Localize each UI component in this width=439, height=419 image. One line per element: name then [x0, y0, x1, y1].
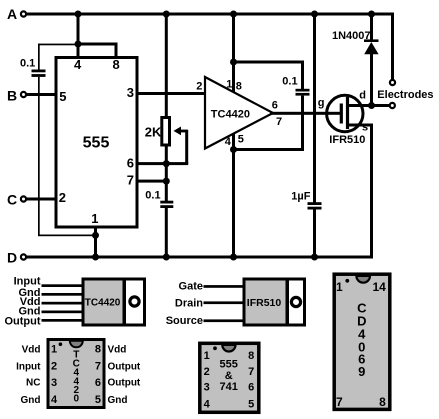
wire pin7 [137, 180, 168, 183]
svg-text:2: 2 [196, 81, 202, 93]
svg-text:1µF: 1µF [291, 191, 310, 203]
wire D rail [27, 256, 374, 259]
svg-text:4: 4 [204, 399, 211, 411]
svg-text:5: 5 [238, 134, 244, 146]
svg-text:IFR510: IFR510 [329, 134, 365, 146]
svg-text:5: 5 [95, 394, 101, 406]
junction dot C2-D [163, 254, 170, 261]
DIP14 CD4069 notch [356, 276, 370, 283]
junction dot pin1-D [92, 254, 99, 261]
wire supply link to C3 [232, 61, 304, 64]
DIP8 TC4420 body [48, 340, 104, 408]
svg-text:8: 8 [248, 350, 254, 362]
wire thin to cap C1 [38, 44, 78, 46]
svg-text:3: 3 [127, 85, 134, 100]
svg-text:NC: NC [26, 378, 40, 389]
junction dot drain [368, 102, 375, 109]
svg-text:4: 4 [225, 136, 232, 148]
svg-text:B: B [7, 88, 17, 104]
svg-text:7: 7 [276, 116, 282, 128]
wire A to U2 pins 1 8 [232, 14, 235, 93]
svg-text:555: 555 [220, 359, 238, 371]
wire drain to electrode [346, 104, 390, 107]
svg-text:s: s [362, 121, 368, 133]
svg-text:0.1: 0.1 [282, 76, 297, 88]
svg-text:741: 741 [220, 381, 238, 393]
svg-text:D: D [7, 250, 17, 266]
svg-text:4: 4 [51, 394, 58, 406]
junction dot A-371 [368, 11, 375, 18]
DIP8 TC4420 pin1 dot [59, 342, 63, 346]
svg-text:Input: Input [14, 276, 41, 288]
junction dot pin6 [163, 160, 170, 167]
svg-text:Input: Input [16, 362, 41, 373]
svg-text:2K: 2K [145, 125, 162, 140]
junction dot C4-D [311, 254, 318, 261]
junction dot A-233 [230, 11, 237, 18]
svg-text:Gnd: Gnd [108, 395, 128, 406]
diode D1 1N4007 [364, 39, 379, 54]
DIP8 555-741 body [200, 343, 259, 412]
junction dot pin1-thin [92, 232, 99, 239]
wire A to 555 pin4 [77, 14, 80, 57]
wire source lead [346, 124, 373, 127]
svg-text:14: 14 [372, 280, 386, 294]
DIP8 555-741 center name [220, 359, 238, 393]
TO220 Q1 package IRF510 [244, 279, 305, 325]
svg-text:4: 4 [74, 57, 82, 72]
terminal A [21, 11, 26, 16]
svg-text:2: 2 [59, 190, 66, 205]
wire thin cap C1 top [38, 44, 40, 70]
svg-text:0: 0 [74, 393, 80, 404]
svg-text:Electrodes: Electrodes [377, 89, 433, 101]
capacitor C1 0.1 [32, 70, 46, 77]
svg-text:Drain: Drain [175, 297, 203, 309]
junction dot 233-D [230, 254, 237, 261]
svg-text:A: A [7, 6, 17, 22]
TO220 Q1 lead gate [204, 285, 246, 288]
svg-text:1: 1 [51, 344, 57, 356]
wire thin to pin1 [38, 235, 97, 237]
wire pot bottom [165, 145, 168, 201]
svg-text:5: 5 [248, 399, 254, 411]
transistor Q1 gate bar [340, 104, 343, 124]
svg-text:C: C [7, 192, 17, 208]
svg-text:1: 1 [336, 280, 343, 294]
junction dot pin7 [163, 178, 170, 185]
wire C4 bottom [313, 210, 316, 258]
TO220 U2 lead 2 [42, 293, 85, 296]
wire electrode feed down [391, 13, 394, 80]
svg-text:2: 2 [204, 366, 210, 378]
TO220 U2 lead 5 [42, 319, 85, 322]
DIP14 CD4069 pin1 dot [345, 279, 349, 283]
terminal B [21, 92, 26, 97]
TO220 Q1 lead source [204, 319, 246, 322]
capacitor C2 0.1 [160, 201, 173, 208]
svg-text:Output: Output [108, 378, 141, 389]
junction dot 233-62 [230, 59, 237, 66]
transistor Q1 channel bar [346, 97, 349, 129]
svg-text:6: 6 [127, 155, 134, 170]
wire A rail [27, 13, 395, 16]
svg-text:TC4420: TC4420 [211, 109, 250, 121]
DIP14 CD4069 body [334, 274, 390, 409]
wire 4-8 link [77, 43, 118, 46]
wire to 555 pin8 [115, 44, 118, 57]
svg-text:7: 7 [336, 395, 343, 409]
TO220 U2 lead 4 [42, 311, 85, 314]
svg-text:IFR510: IFR510 [247, 297, 282, 309]
terminal electrode top [390, 80, 395, 85]
capacitor C4 1uF wire top [313, 14, 316, 203]
wire thin cap C1 bottom [38, 77, 40, 236]
svg-text:Output: Output [108, 362, 141, 373]
junction dot A-78 [75, 11, 82, 18]
junction dot 233-149 [230, 146, 237, 153]
svg-text:555: 555 [83, 135, 110, 152]
svg-text:0.1: 0.1 [145, 189, 160, 201]
svg-text:Gate: Gate [179, 281, 203, 293]
svg-text:5: 5 [59, 89, 66, 104]
wire C to pin2 [27, 198, 57, 201]
svg-text:7: 7 [95, 361, 101, 373]
junction dot A-314 [311, 11, 318, 18]
wire pin3 to U2 input [137, 92, 207, 95]
svg-text:3: 3 [204, 381, 210, 393]
svg-text:d: d [359, 90, 366, 102]
DIP8 TC4420 vertical name [73, 349, 80, 404]
junction dot 4-8 [75, 41, 82, 48]
IC 555 body [56, 58, 137, 228]
wire wiper down [185, 130, 188, 164]
svg-text:3: 3 [51, 377, 57, 389]
svg-text:6: 6 [248, 381, 254, 393]
DIP14 CD4069 vertical name [357, 301, 367, 380]
diode D1 wire top [370, 14, 373, 40]
TO220 U2 lead 1 [42, 284, 85, 287]
terminal electrode bottom [390, 103, 395, 108]
wire C3 bottom [301, 96, 304, 151]
svg-text:g: g [318, 97, 325, 109]
svg-text:8: 8 [379, 395, 386, 409]
junction dot A-166 [163, 11, 170, 18]
wire D1 to drain [370, 54, 373, 107]
svg-text:7: 7 [127, 173, 134, 188]
svg-text:6: 6 [95, 377, 101, 389]
wire pin6 [137, 162, 188, 165]
wire source to D rail [370, 124, 373, 259]
svg-text:2: 2 [51, 361, 57, 373]
terminal D [21, 254, 26, 259]
svg-text:TC4420: TC4420 [85, 297, 121, 308]
svg-text:Vdd: Vdd [22, 344, 41, 355]
terminal C [21, 196, 26, 201]
svg-text:8: 8 [236, 80, 242, 92]
svg-text:1: 1 [226, 79, 232, 91]
DIP8 555-741 notch [222, 345, 235, 352]
transistor Q1 IRF510 circle [327, 95, 363, 131]
svg-text:7: 7 [248, 366, 254, 378]
wire U2 output to gate [270, 112, 342, 115]
TO220 U2 package TC4420 [83, 279, 145, 325]
svg-text:9: 9 [358, 364, 365, 379]
wire A to pot top [165, 14, 168, 116]
svg-text:1: 1 [204, 350, 210, 362]
wire pin1 to D rail [94, 229, 97, 258]
op-amp U2 TC4420 triangle [205, 77, 273, 149]
svg-text:1: 1 [91, 211, 98, 226]
svg-text:Source: Source [166, 315, 203, 327]
wire U2 pins 4 5 to D rail [232, 133, 235, 257]
capacitor C4 1uF [308, 202, 322, 209]
DIP8 TC4420 notch [70, 341, 83, 348]
svg-text:Gnd: Gnd [21, 395, 41, 406]
DIP8 555-741 pin1 dot [213, 346, 217, 350]
svg-text:8: 8 [95, 344, 101, 356]
svg-text:1N4007: 1N4007 [332, 30, 371, 42]
TO220 Q1 lead drain [204, 301, 246, 304]
potentiometer R1 wiper arrow [174, 127, 188, 136]
potentiometer R1 2K body [162, 118, 170, 146]
svg-text:Vdd: Vdd [108, 344, 127, 355]
wire lower link to pins 4 5 [232, 148, 304, 151]
svg-text:6: 6 [272, 100, 278, 112]
svg-text:Output: Output [4, 315, 40, 327]
wire cap C2 to D rail [165, 208, 168, 257]
wire B to pin5 [27, 93, 57, 96]
svg-text:8: 8 [113, 57, 120, 72]
svg-text:0.1: 0.1 [20, 58, 35, 70]
capacitor C3 0.1 [296, 89, 310, 96]
wire C3 top [301, 62, 304, 89]
TO220 U2 lead 3 [42, 302, 85, 305]
